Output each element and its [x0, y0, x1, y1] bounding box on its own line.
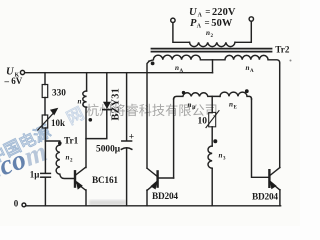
potentiometer 10k [42, 115, 48, 128]
wire pot down to 1u cap [44, 128, 46, 173]
node dot n2 top [58, 141, 62, 145]
wire 1u cap to ground rail [44, 178, 46, 206]
svg-text:220V: 220V [212, 7, 236, 18]
resistor 10 ohm [209, 112, 216, 126]
inductor n1 Tr1 winding [83, 91, 87, 107]
wire Q3 emitter down [279, 190, 281, 206]
node dot n3 top [213, 139, 217, 143]
wire output right lead [235, 21, 251, 42]
svg-text:A: A [180, 69, 184, 74]
wire Q2 base lead [159, 177, 174, 179]
inductor n2 Tr1 winding [56, 145, 60, 174]
transistor Q1 BC161 [74, 171, 76, 186]
wire output left lead [173, 23, 190, 43]
svg-text:Tr1: Tr1 [64, 136, 79, 146]
wire BC161 collector up [85, 107, 87, 168]
svg-text:BD204: BD204 [252, 193, 278, 203]
terminal 0 [22, 203, 26, 207]
watermark blue chinese left [0, 122, 54, 168]
inductor nA left half [149, 55, 213, 61]
node dot nB phase [182, 91, 185, 94]
svg-text:Tr2: Tr2 [275, 45, 290, 55]
terminal UK [20, 70, 24, 74]
transistor Q2 BD204 left [156, 171, 158, 186]
svg-text:n: n [66, 154, 70, 162]
wire 5000u to ground rail [126, 148, 128, 206]
svg-text:n: n [78, 98, 82, 106]
svg-text:n: n [206, 29, 210, 37]
watermark blue char fragment [63, 104, 87, 129]
wire BC161 emitter down [85, 190, 87, 206]
watermark gray company text [86, 103, 218, 118]
svg-text:+: + [129, 132, 134, 142]
svg-text:n: n [219, 152, 223, 160]
inductor ns secondary 220V [190, 42, 236, 46]
speck right edge [290, 60, 292, 62]
wire UK supply rail [25, 72, 213, 74]
terminal output left [171, 18, 175, 22]
svg-text:n: n [175, 64, 179, 72]
svg-text:n: n [188, 101, 192, 109]
node dot nA phase left [151, 62, 155, 66]
core Tr2 [152, 48, 272, 50]
wire n3 to ground rail [211, 168, 213, 206]
wire n_A centre tap drop [212, 60, 214, 73]
svg-text:– 6V: – 6V [4, 76, 23, 86]
wire nA right end down to Q3 collector [279, 63, 281, 167]
resistor 330 [42, 85, 48, 98]
terminal output right [249, 17, 253, 21]
inductor n3 Tr1 winding [208, 146, 212, 168]
svg-text:=: = [205, 17, 210, 27]
wire 5000u branch top [126, 73, 128, 141]
node dot nE phase [245, 89, 249, 93]
wire nB left end down to Q2 base [173, 99, 175, 178]
svg-text:n: n [229, 101, 233, 109]
svg-text:BC161: BC161 [92, 176, 118, 186]
svg-text:10: 10 [198, 116, 208, 126]
wire n1 top to supply [86, 73, 88, 91]
svg-text:A: A [250, 69, 254, 74]
inductor nB left half [174, 93, 220, 99]
svg-text:=: = [205, 7, 210, 17]
wire zener branch top [106, 73, 108, 102]
wire nB centre tap to 10 ohm [211, 96, 213, 112]
svg-text:n: n [246, 64, 250, 72]
svg-text:330: 330 [52, 88, 66, 98]
wire 10 ohm to n3 [211, 127, 213, 146]
capacitor C 1u plates [41, 172, 51, 174]
svg-text:BZY31: BZY31 [110, 88, 121, 120]
inductor nA right half [213, 55, 280, 62]
wire 330 to pot [44, 98, 46, 116]
wire Q2 emitter down [146, 190, 148, 206]
svg-text:10k: 10k [51, 118, 65, 128]
node dot n1 phase [89, 118, 93, 122]
svg-text:1μ: 1μ [30, 170, 40, 180]
wire n2 bottom to BC161 base [60, 174, 74, 178]
ground rail 0 [26, 205, 280, 207]
wire zener bottom to collector line [86, 110, 107, 138]
inductor nE right half [220, 92, 252, 99]
svg-text:5000μ: 5000μ [96, 144, 121, 154]
svg-text:BD204: BD204 [152, 192, 178, 202]
wire nA left end down to Q2 collector [147, 62, 149, 169]
transistor Q3 BD204 right [268, 170, 270, 187]
capacitor C 5000u [122, 140, 132, 142]
svg-text:0: 0 [14, 199, 19, 209]
diode VD BZY31 [103, 102, 111, 109]
wire 330 branch top [44, 73, 46, 85]
wire nE right end down to Q3 base [252, 99, 269, 177]
wire branch to Tr1 n2 top [45, 141, 59, 145]
scan smudge above ground rail [89, 200, 126, 206]
watermark blue .com [0, 136, 51, 184]
svg-text:50W: 50W [211, 18, 233, 29]
